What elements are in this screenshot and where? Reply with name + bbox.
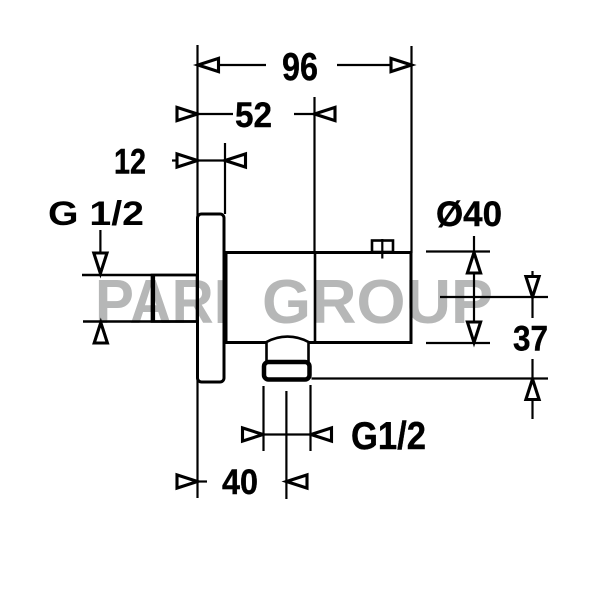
extension line x=314.5 (52 dim) [313,97,315,252]
Ø40 top extension [426,250,490,252]
stop screw [372,241,393,253]
nipple bottom edge + extension [83,320,196,322]
dimension 96 [198,46,412,89]
svg-text:12: 12 [114,143,146,182]
svg-text:Ø40: Ø40 [436,195,502,234]
svg-text:52: 52 [235,96,272,135]
body joint line [314,253,317,343]
svg-text:GROUP: GROUP [262,268,493,337]
valve body [226,253,411,343]
inlet nipple G1/2 [152,275,197,322]
dimension Ø40 [436,195,502,343]
svg-text:G 1/2: G 1/2 [48,195,144,233]
svg-text:96: 96 [282,46,318,89]
svg-text:PARI: PARI [95,268,230,337]
svg-text:G1/2: G1/2 [351,415,426,458]
dimension 40 [177,463,307,502]
extension line x=225 (12 dim) [224,143,226,214]
dimension 37 [513,271,548,419]
nipple top edge + extension [82,274,196,276]
outlet centerline [285,391,287,499]
label G 1/2 (inlet thread) [48,195,144,343]
extension line left (wall face) [196,45,198,498]
Ø40 bottom extension [426,342,490,344]
dimension 12 [114,143,246,182]
G1/2 outlet extension lines [262,386,264,451]
outlet bottom reference line [312,377,549,379]
extension line right (96 dim) [410,46,412,253]
wall plate [198,214,225,382]
outlet nut [264,362,310,380]
centerline extension right [440,296,548,298]
stop screw line [381,239,383,259]
outlet dome [267,337,309,363]
svg-text:37: 37 [513,320,548,359]
dimension G1/2 (outlet thread) [243,415,427,458]
svg-text:40: 40 [222,463,258,502]
dimension 52 [177,96,335,135]
